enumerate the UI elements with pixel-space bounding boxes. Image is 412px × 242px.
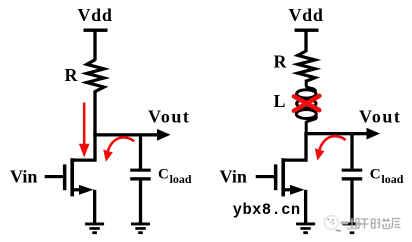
svg-text:R: R: [65, 65, 79, 85]
resistor R (left): [87, 60, 104, 92]
red X over inductor (right): [294, 96, 319, 111]
wire Vdd bar to resistor R (left): [93, 31, 96, 61]
wire resistor to output node (left): [93, 91, 96, 137]
transistor M2 drain lead (right): [283, 134, 306, 161]
Vout arrowhead (left): [157, 129, 171, 141]
Vout arrowhead (right): [367, 128, 381, 140]
label Cload (right): [370, 167, 404, 186]
ground (left Cload): [131, 223, 150, 235]
svg-text:Vout: Vout: [359, 107, 401, 127]
wire output node to Vout arrow (right): [304, 132, 367, 135]
watermark dash: [341, 221, 349, 224]
transistor M1 channel bar (left): [70, 158, 74, 196]
wire Vdd bar to resistor R (right): [304, 31, 307, 53]
wire output node to Vout arrow (left): [93, 133, 158, 136]
svg-text:load: load: [170, 172, 192, 186]
power Vdd rail bar (right): [295, 29, 319, 32]
transistor M1 source lead with arrow (left): [72, 185, 96, 223]
svg-text:ybx8.cn: ybx8.cn: [233, 201, 301, 219]
svg-text:L: L: [274, 91, 286, 111]
wire Vout node to capacitor (right): [350, 134, 353, 170]
watermark text (stylised CJK strokes): [350, 218, 401, 229]
svg-text:Vin: Vin: [220, 167, 247, 187]
red curved arrow (left): [103, 137, 134, 161]
power Vdd rail bar (left): [84, 29, 108, 32]
transistor M1 gate bar (left): [63, 164, 67, 190]
svg-text:R: R: [274, 52, 288, 72]
ground (right Cload): [343, 223, 362, 235]
capacitor Cload (right): [342, 169, 363, 223]
transistor M1 drain lead (left): [72, 135, 95, 160]
watermark halo over ground: [338, 221, 364, 231]
wire Vin gate lead (left): [45, 175, 64, 178]
inductor L (right): [296, 80, 316, 134]
watermark logo circle: [324, 216, 341, 232]
svg-text:load: load: [381, 172, 403, 186]
red curved arrow (right): [315, 136, 346, 160]
ground (left transistor source): [85, 223, 104, 235]
svg-text:Vin: Vin: [10, 167, 37, 187]
resistor R (right): [298, 51, 315, 81]
label Cload (left): [158, 167, 192, 186]
ground (right transistor source): [296, 223, 315, 235]
wire Vin gate lead (right): [256, 175, 275, 178]
svg-text:Vdd: Vdd: [288, 5, 323, 25]
red current arrow (left): [79, 103, 90, 158]
transistor M2 source lead with arrow (right): [283, 185, 307, 223]
transistor M2 channel bar (right): [281, 158, 285, 196]
svg-text:C: C: [158, 167, 169, 183]
svg-text:Vdd: Vdd: [77, 5, 112, 25]
svg-text:Vout: Vout: [148, 107, 190, 127]
wire Vout node to capacitor (left): [139, 135, 142, 170]
transistor M2 gate bar (right): [274, 164, 278, 190]
capacitor Cload (left): [130, 169, 151, 223]
svg-text:C: C: [370, 167, 381, 183]
